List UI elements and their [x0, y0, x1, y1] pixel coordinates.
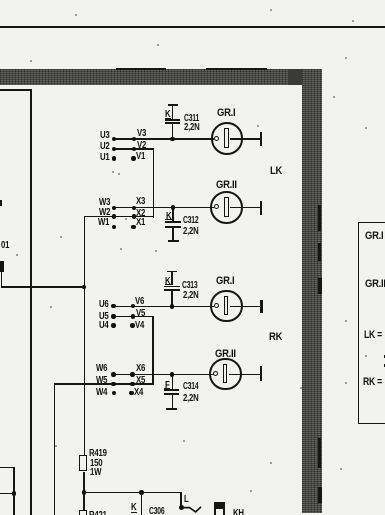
label U6	[99, 300, 109, 310]
legend label RK =	[363, 377, 382, 388]
partial text at left edge	[0, 200, 2, 206]
node contact L pivot	[179, 505, 184, 510]
node U3	[112, 137, 116, 141]
label C312	[183, 216, 198, 226]
wire left terminal lower	[0, 493, 14, 495]
wire row2 W3-X3 to lamp GR.II	[114, 207, 215, 209]
capacitor C312 top stem	[172, 209, 174, 222]
label KH	[233, 509, 244, 515]
border top bar dark dash 1	[116, 68, 166, 70]
junction dot C306 tap	[139, 490, 144, 495]
label V2	[137, 141, 146, 151]
capacitor C314 top stem	[172, 375, 174, 389]
capacitor C314 bottom stem	[172, 395, 174, 408]
contact L blade	[181, 505, 205, 515]
label GR.II no.4	[215, 349, 236, 360]
node V5	[131, 314, 135, 318]
wire C306 stem down	[141, 493, 143, 515]
label X3	[136, 197, 145, 207]
label F of C314	[165, 381, 170, 391]
border right bar dark blob 3	[318, 278, 322, 294]
border right bar dark blob 2	[318, 243, 321, 261]
node X5	[130, 382, 134, 386]
wire row3 U6-V6 to lamp GR.I	[113, 306, 214, 308]
lamp GR.II no.2 circle	[210, 191, 243, 224]
wire branch to W2 line	[1, 286, 84, 288]
underline K of C311	[165, 118, 171, 119]
border right bar dark blob 4	[318, 438, 321, 468]
lamp GR.II no.4 electrode bar	[223, 364, 228, 383]
label W3	[99, 198, 110, 208]
node X3	[132, 206, 136, 210]
legend partial mark 1	[384, 355, 385, 358]
label C306	[149, 507, 164, 515]
node U6	[111, 304, 115, 308]
legend label LK =	[364, 330, 382, 341]
node V4	[130, 323, 134, 327]
lamp GR.I no.3 circle	[210, 290, 243, 323]
lamp GR.II no.4 electrode dot	[213, 371, 218, 376]
label C311	[184, 114, 199, 124]
label U1	[100, 153, 110, 163]
label V6	[135, 297, 144, 307]
label K of C313	[165, 277, 170, 287]
label X2	[136, 209, 145, 219]
border top bar dark dash 2	[206, 68, 267, 70]
label 1W	[90, 468, 101, 478]
capacitor C313 plate 1	[164, 286, 179, 288]
capacitor C312 plate 1	[165, 221, 181, 223]
capacitor C312 bottom stem	[172, 228, 174, 241]
label 2,2N of C314	[183, 394, 199, 404]
connector KH right leg	[223, 509, 225, 515]
node V1	[131, 156, 135, 160]
label W6	[96, 364, 107, 374]
label GR.I no.3	[216, 276, 234, 287]
underline K of C306	[131, 512, 137, 513]
node W2	[112, 214, 116, 218]
node X6	[130, 372, 134, 376]
junction dot on W2 line	[82, 285, 87, 290]
wire row X5 from corner to V5 line	[54, 383, 154, 385]
lamp GR.I no.1 circle	[211, 122, 244, 155]
label X5	[136, 376, 145, 386]
capacitor C311 terminal K bar	[168, 104, 178, 106]
label V1	[136, 152, 145, 162]
label W1	[98, 218, 109, 228]
label W5	[96, 376, 107, 386]
label K of C311	[165, 110, 170, 120]
label U5	[99, 312, 109, 322]
capacitor C311 top stem	[172, 106, 174, 119]
junction dot C311 on row1	[170, 137, 175, 142]
wire W2 vertical down to R419	[84, 216, 86, 455]
junction dot below R419	[82, 490, 87, 495]
partial component at left edge	[0, 261, 4, 273]
node V2	[132, 147, 136, 151]
label L	[184, 495, 189, 505]
label V4	[135, 321, 144, 331]
label X1	[136, 218, 145, 228]
node U1	[112, 156, 116, 160]
label 01	[1, 241, 9, 251]
capacitor C312 terminal bar	[168, 240, 179, 242]
lamp GR.II no.4 circle	[209, 358, 242, 391]
node U4	[111, 323, 115, 327]
wire left terminal upper	[0, 467, 14, 469]
lamp GR.I no.3 electrode dot	[214, 303, 219, 308]
capacitor C311 bottom stem	[172, 124, 174, 139]
node U2	[112, 147, 116, 151]
underline K of C312	[165, 219, 171, 220]
border right bar dark blob 1	[318, 205, 321, 231]
wire row U2-V2	[114, 148, 155, 150]
lamp GR.II no.2 electrode bar	[224, 197, 229, 216]
border top thick bar	[0, 69, 322, 84]
wire row W2-X2	[84, 216, 155, 218]
junction dot left terminal	[12, 491, 17, 496]
connector KH body	[214, 502, 225, 508]
label 150	[90, 459, 102, 469]
module box right edge	[30, 89, 32, 515]
label 2,2N of C312	[183, 227, 199, 237]
wire V5 vertical down to X5	[152, 316, 154, 385]
label U4	[99, 321, 109, 331]
border right thick bar	[302, 69, 322, 513]
node X4	[129, 391, 133, 395]
wire V2 vertical down to X2	[153, 148, 155, 218]
wire down to R421	[83, 493, 85, 511]
capacitor C312 plate 2	[165, 226, 181, 228]
wire X5 corner vertical down	[54, 383, 56, 515]
wire R419 to bottom node	[83, 472, 85, 493]
label C313	[182, 281, 197, 291]
border top bar dark corner	[288, 69, 322, 85]
junction dot C314 on row4	[170, 372, 175, 377]
underline F of C314	[164, 388, 170, 389]
border top thin line	[0, 26, 385, 28]
label 2,2N of C313	[183, 291, 199, 301]
capacitor C314 plate 2	[164, 393, 180, 395]
label W4	[96, 388, 107, 398]
capacitor C314 terminal bar	[166, 408, 177, 410]
label RK	[269, 332, 282, 343]
label U3	[100, 131, 110, 141]
wire corner down to contact L	[180, 492, 182, 508]
label X6	[136, 364, 145, 374]
label K of C312	[166, 212, 171, 222]
label V3	[137, 129, 146, 139]
node X2	[132, 214, 136, 218]
label U2	[100, 142, 110, 152]
capacitor C311 plate 2	[165, 122, 180, 124]
capacitor C314 plate 1	[164, 389, 180, 391]
node U5	[111, 314, 115, 318]
node W3	[112, 206, 116, 210]
wire bottom bus	[83, 492, 181, 494]
wire row U5-V5	[113, 316, 153, 318]
label W2	[99, 208, 110, 218]
wire lamp3 to terminal	[230, 306, 260, 308]
label R421 partial	[89, 511, 107, 515]
resistor R419 body	[79, 455, 86, 471]
label R419	[89, 449, 107, 459]
node X1	[131, 225, 135, 229]
wire lamp1 to terminal	[230, 138, 260, 140]
capacitor C311 plate 1	[165, 119, 180, 121]
lamp GR.I no.3 electrode bar	[224, 296, 229, 315]
wire lamp2 to terminal	[230, 207, 259, 209]
resistor R421 body partial	[79, 510, 86, 515]
label 2,2N of C311	[184, 123, 200, 133]
legend partial mark 2	[384, 364, 385, 367]
label LK	[270, 166, 282, 177]
capacitor C313 bottom stem	[171, 291, 173, 305]
capacitor C313 terminal K bar	[167, 271, 177, 273]
border right bar dark blob 5	[318, 487, 322, 503]
label GR.I no.1	[217, 108, 235, 119]
node V3	[132, 137, 136, 141]
label V5	[136, 309, 145, 319]
node W5	[111, 382, 115, 386]
terminal bar row1	[260, 132, 262, 146]
terminal bar row2	[260, 201, 262, 215]
label K of C306	[131, 503, 136, 513]
lamp GR.I no.1 electrode bar	[224, 128, 229, 147]
scan specks	[75, 14, 77, 16]
node W4	[112, 391, 116, 395]
node W1	[112, 225, 116, 229]
wire row1 U3-V3 to lamp GR.I	[114, 138, 215, 140]
lamp GR.II no.2 electrode dot	[214, 204, 219, 209]
legend label GR.I	[365, 231, 383, 242]
label GR.II no.2	[216, 180, 237, 191]
legend box	[358, 222, 385, 424]
wire left terminal vertical	[13, 467, 15, 515]
module box top edge	[0, 89, 31, 91]
underline K of C313	[165, 284, 171, 285]
label C314	[183, 382, 198, 392]
lamp GR.I no.1 electrode dot	[214, 136, 219, 141]
terminal bar row4	[260, 366, 262, 381]
node V6	[131, 304, 135, 308]
capacitor C313 top stem	[171, 272, 173, 285]
legend label GR.II	[365, 279, 385, 290]
capacitor C313 plate 2	[164, 289, 179, 291]
terminal bar row3	[260, 300, 262, 314]
wire lamp4 to terminal	[229, 374, 259, 376]
connector KH left leg	[214, 509, 216, 515]
junction dot C312 on row2	[171, 205, 176, 210]
label X4	[134, 388, 143, 398]
wire row4 W6-X6 to lamp GR.II	[113, 374, 214, 376]
junction dot C313 on row3	[170, 304, 175, 309]
wire left edge stub down	[1, 272, 3, 288]
node W6	[111, 372, 115, 376]
